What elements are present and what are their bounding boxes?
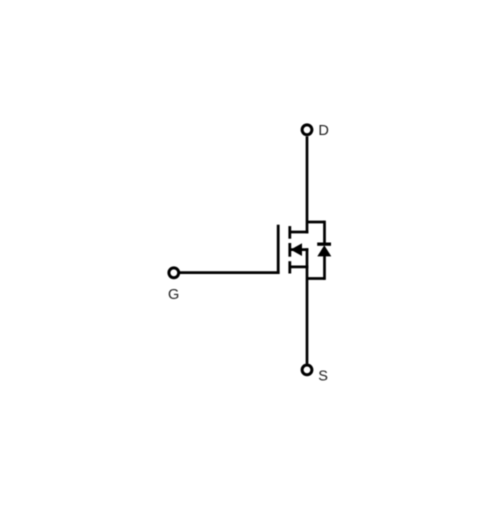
svg-text:S: S bbox=[318, 368, 328, 384]
svg-text:G: G bbox=[168, 287, 179, 303]
svg-text:D: D bbox=[318, 123, 328, 139]
